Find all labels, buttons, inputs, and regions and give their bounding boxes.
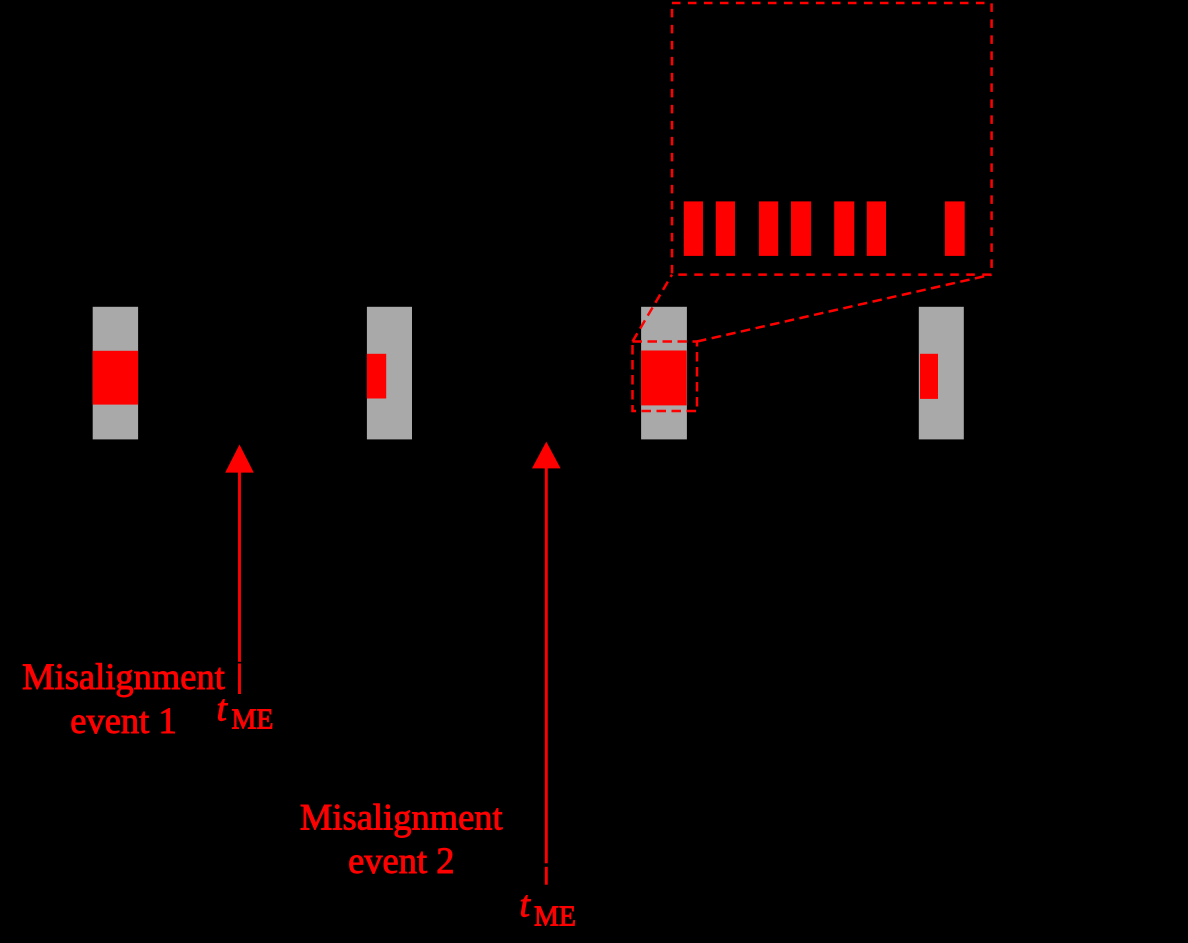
svg-text:t: t: [520, 885, 532, 926]
svg-text:event 2: event 2: [348, 840, 454, 881]
svg-text:ME: ME: [534, 901, 576, 932]
svg-text:event 1: event 1: [70, 700, 176, 741]
svg-text:Misalignment: Misalignment: [300, 796, 503, 837]
svg-text:ME: ME: [232, 704, 274, 735]
svg-text:t: t: [217, 689, 229, 730]
svg-text:Misalignment: Misalignment: [22, 656, 225, 697]
